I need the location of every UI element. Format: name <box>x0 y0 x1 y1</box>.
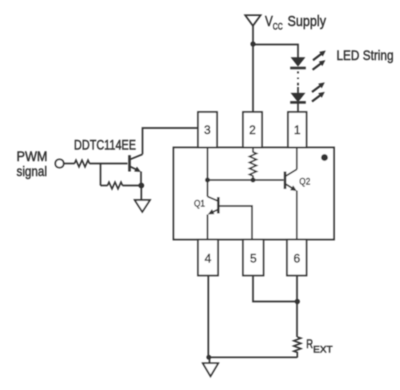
junction emitter node <box>138 183 144 189</box>
svg-text:EXT: EXT <box>313 345 333 355</box>
transistor Q2 <box>285 169 297 191</box>
ground (output) <box>203 357 218 376</box>
wire to parallel resistor <box>101 185 108 187</box>
wire pin 4 down <box>207 276 209 358</box>
label REXT <box>306 337 333 355</box>
svg-text:Q1: Q1 <box>194 198 205 209</box>
pin 5 <box>243 240 264 276</box>
wire Q1 base to pin 5 <box>220 206 253 240</box>
LED D1 <box>290 57 306 68</box>
wire collector to pin 3 <box>143 128 199 154</box>
junction ground node <box>206 355 211 360</box>
junction rail at pin3 column <box>205 178 210 183</box>
pin 3 <box>198 112 217 148</box>
svg-text:signal: signal <box>17 163 48 179</box>
resistor internal (pin 2 to rail) <box>250 148 257 181</box>
wire input to series resistor <box>64 163 75 165</box>
wire internal rail <box>208 179 284 181</box>
pin 1 marker dot <box>321 154 328 161</box>
wire branch down to parallel resistor <box>100 164 102 186</box>
wire Q1 emitter to pin 4 <box>207 215 209 240</box>
ground (PWM transistor) <box>135 200 150 212</box>
svg-text:6: 6 <box>293 252 300 266</box>
label PWM signal <box>17 148 48 179</box>
wire bottom rail <box>208 356 297 358</box>
pin 6 <box>287 240 307 276</box>
IC body U1 <box>174 148 335 240</box>
label VCC Supply <box>265 14 327 33</box>
wire Q2 collector to pin 1 <box>296 148 298 170</box>
svg-text:Q2: Q2 <box>299 176 310 187</box>
svg-text:3: 3 <box>204 123 211 137</box>
svg-text:2: 2 <box>249 123 256 137</box>
wire pin 6 down to REXT <box>296 276 298 338</box>
svg-text:LED String: LED String <box>337 47 394 63</box>
transistor Q1 <box>208 197 219 215</box>
svg-text:4: 4 <box>205 252 212 266</box>
resistor REXT <box>294 337 301 358</box>
resistor base-emitter (internal R2) <box>108 182 123 189</box>
svg-text:DDTC114EE: DDTC114EE <box>74 137 136 153</box>
power symbol VCC <box>245 15 260 26</box>
LED D2 emission arrows <box>312 82 325 92</box>
svg-text:CC: CC <box>273 22 283 33</box>
LED D2 <box>290 93 306 103</box>
junction rail at resistor <box>251 178 256 183</box>
svg-text:1: 1 <box>294 123 301 137</box>
wire VCC vertical to pin 2 <box>252 26 254 112</box>
junction pin5/pin6 node <box>295 299 300 304</box>
wire pin 3 internal down <box>207 148 209 197</box>
pin 4 <box>198 240 218 276</box>
wire anode lead LED D2 <box>297 87 299 93</box>
svg-text:Supply: Supply <box>288 14 327 30</box>
junction VCC node <box>250 41 255 46</box>
pin 1 <box>288 112 307 148</box>
svg-text:5: 5 <box>250 252 257 266</box>
wire resistor to base <box>90 163 128 165</box>
wire emitter to ground <box>140 186 142 201</box>
wire VCC to LED string <box>253 45 298 58</box>
pin 2 <box>243 112 262 148</box>
wire dash-dot LED string continuation <box>297 71 299 85</box>
svg-text:PWM: PWM <box>17 148 48 164</box>
LED D1 emission arrows <box>313 51 326 61</box>
transistor DDTC114EE <box>130 154 143 185</box>
resistor series base (internal R1) <box>75 160 90 167</box>
wire LED string to pin 1 <box>297 103 299 112</box>
wire pin 5 down and right <box>253 276 298 302</box>
wire resistor R2 to emitter node <box>123 185 142 187</box>
terminal PWM input <box>55 159 63 167</box>
wire Q2 emitter to pin 6 <box>296 191 298 240</box>
